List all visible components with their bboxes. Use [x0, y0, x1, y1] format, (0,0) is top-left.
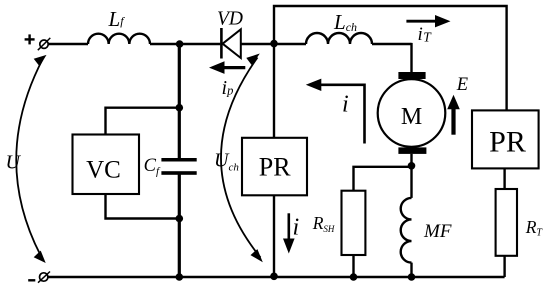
svg-text:i: i [342, 92, 349, 118]
svg-text:RT: RT [525, 217, 544, 239]
svg-text:E: E [456, 75, 468, 95]
svg-text:Lf: Lf [108, 7, 126, 31]
svg-text:Lch: Lch [333, 10, 357, 34]
svg-text:iT: iT [418, 24, 433, 45]
svg-text:VC: VC [86, 156, 121, 183]
svg-text:RSH: RSH [312, 213, 335, 234]
svg-text:Uch: Uch [214, 150, 239, 174]
svg-text:MF: MF [423, 221, 452, 242]
svg-text:U: U [6, 152, 22, 174]
svg-text:ip: ip [222, 77, 234, 99]
svg-text:VD: VD [217, 9, 243, 30]
svg-text:PR: PR [259, 153, 291, 182]
svg-text:PR: PR [489, 125, 526, 158]
svg-text:M: M [401, 104, 422, 130]
svg-text:i: i [293, 215, 300, 241]
svg-text:Cf: Cf [144, 156, 161, 178]
